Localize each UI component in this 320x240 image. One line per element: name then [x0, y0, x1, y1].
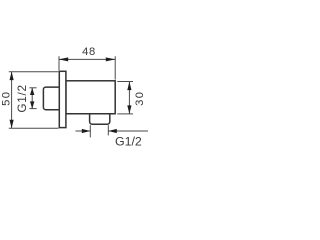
svg-text:G1/2: G1/2	[115, 134, 142, 148]
left G1/2 label	[15, 84, 29, 112]
dim 50 extension lines	[9, 72, 59, 129]
dim 48 arrow right	[106, 57, 115, 61]
dim 48 line	[59, 58, 115, 60]
bottom G1/2 arrow left	[82, 129, 91, 133]
bottom G1/2 dim tails	[76, 130, 149, 132]
wall flange	[59, 71, 66, 127]
svg-text:30: 30	[134, 91, 146, 106]
dim 30 arrow bottom	[127, 105, 131, 114]
dim 50 label	[1, 91, 13, 106]
left G1/2 arrow down	[30, 101, 34, 108]
bottom outlet G1/2	[90, 110, 110, 124]
left G1/2 dim line	[31, 88, 33, 109]
svg-text:48: 48	[82, 46, 96, 58]
dim 48 label	[82, 46, 96, 58]
body block	[66, 81, 115, 114]
dim 48 extension lines	[59, 56, 115, 79]
dim 50 line	[11, 72, 13, 129]
svg-text:50: 50	[1, 91, 13, 106]
dim 30 extension lines	[117, 82, 133, 114]
wall nipple G1/2	[43, 87, 60, 110]
dim 50 arrow top	[10, 72, 14, 81]
left G1/2 extension lines	[29, 88, 36, 109]
dim 48 arrow left	[59, 57, 68, 61]
dim 30 label	[134, 91, 146, 106]
bottom G1/2 arrow right	[108, 129, 117, 133]
bottom G1/2 label	[115, 134, 142, 148]
left G1/2 arrow up	[30, 88, 34, 95]
bottom G1/2 extension lines	[90, 125, 108, 137]
dim 30 arrow top	[127, 82, 131, 91]
dim 30 line	[128, 82, 130, 114]
svg-text:G1/2: G1/2	[15, 84, 29, 112]
dim 50 arrow bottom	[10, 120, 14, 129]
